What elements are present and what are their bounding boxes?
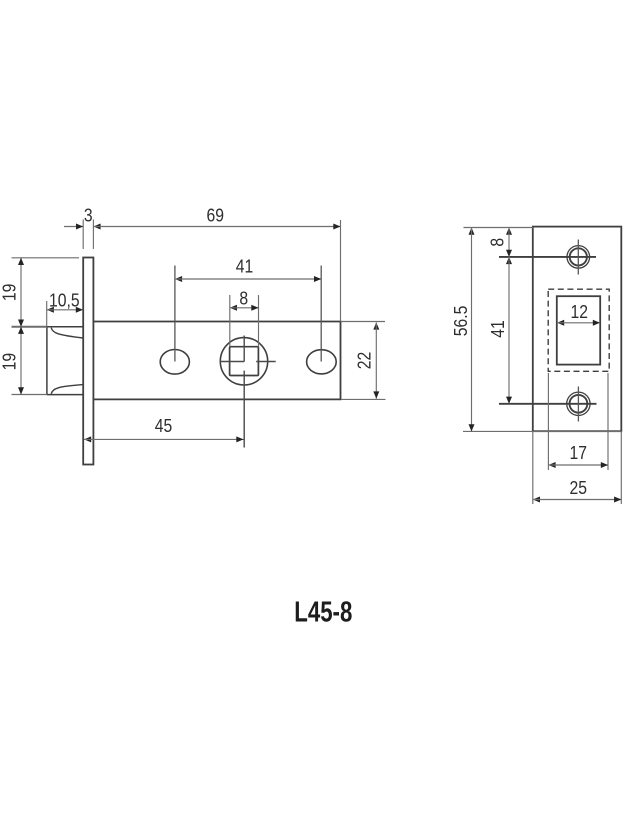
svg-text:3: 3 bbox=[84, 204, 93, 226]
svg-text:17: 17 bbox=[569, 442, 586, 464]
svg-text:12: 12 bbox=[570, 301, 587, 323]
svg-text:10,5: 10,5 bbox=[49, 289, 80, 311]
svg-text:25: 25 bbox=[570, 477, 587, 499]
svg-text:69: 69 bbox=[206, 204, 223, 226]
svg-text:19: 19 bbox=[0, 284, 20, 301]
svg-text:41: 41 bbox=[487, 320, 509, 337]
svg-text:8: 8 bbox=[239, 287, 248, 309]
svg-text:L45-8: L45-8 bbox=[294, 597, 352, 628]
svg-text:41: 41 bbox=[236, 255, 253, 277]
svg-text:22: 22 bbox=[353, 352, 375, 369]
svg-text:19: 19 bbox=[0, 353, 20, 370]
svg-text:45: 45 bbox=[155, 415, 172, 437]
svg-text:56.5: 56.5 bbox=[450, 306, 472, 337]
svg-text:8: 8 bbox=[486, 238, 508, 247]
